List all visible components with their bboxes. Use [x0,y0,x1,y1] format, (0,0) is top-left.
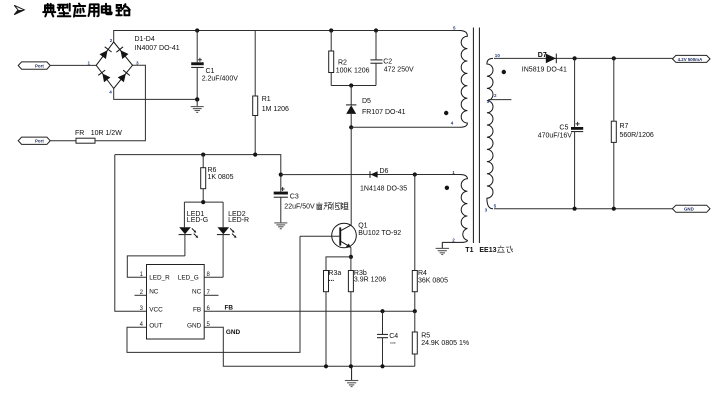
ground G1 [191,99,204,112]
svg-text:472 250V: 472 250V [384,67,414,74]
U1 pin 3 VCC [140,306,163,314]
T1 primary polarity dot [444,111,448,115]
svg-text:3.9R 1206: 3.9R 1206 [354,277,386,284]
svg-text:IN4007 DO-41: IN4007 DO-41 [135,45,180,52]
ground G2 [274,223,287,229]
svg-text:10: 10 [495,53,501,58]
junction R4 top [413,172,417,176]
wire VCC left leg to pin 3 [115,155,147,312]
svg-text:FR: FR [75,130,84,137]
svg-text:36K 0805: 36K 0805 [418,278,448,285]
resistor R3a [324,270,342,366]
svg-text:BU102 TO-92: BU102 TO-92 [358,230,401,237]
U1 pin 2 NC stub [135,289,159,296]
svg-text:1N4148 DO-35: 1N4148 DO-35 [360,185,407,192]
value label 高频低阻 for C3 [316,202,348,209]
T1 aux polarity dot [445,186,449,190]
wire bridge node4 to C1 ground node [114,89,198,100]
wire GND line pin5 [204,327,415,366]
junction C3 top [279,173,283,177]
svg-text:C3: C3 [290,194,299,201]
junction C1 top [195,28,199,32]
T1 secondary winding pins 10-2/3-5 [485,53,501,213]
resistor R6 [201,155,234,203]
port output 4.2V 500mA [672,55,710,62]
T1 secondary polarity dot [502,70,506,74]
capacitor C1 electrolytic [191,31,238,100]
junction R7 top [612,56,616,60]
svg-text:100K 1206: 100K 1206 [336,67,370,74]
svg-text:T1: T1 [465,247,473,254]
svg-text:...: ... [328,276,334,283]
capacitor C3 electrolytic [274,175,315,223]
port P1 AC input [18,62,50,69]
junction R6 bottom [201,200,205,204]
capacitor C4 [377,311,398,366]
LED LED1 green [179,202,209,256]
resistor R5 [412,311,469,366]
wire secondary pin10 to output [494,57,672,59]
wire bridge node2 riser to top rail [114,31,460,43]
svg-text:C5: C5 [559,125,568,132]
T1 secondary tap stub wire [488,99,511,101]
wire D6 aux line [281,174,460,176]
U1 pin 7 NC stub [192,289,219,296]
resistor FR fuse resistor [75,130,122,143]
svg-text:VCC: VCC [149,307,163,314]
resistor R2 [329,31,370,86]
wire LED1 cathode to pin 1 [127,256,185,277]
svg-text:1: 1 [88,60,91,65]
diode D2 (arm 3-2) [116,47,128,59]
diode D3 (arm 4-1) [98,70,110,82]
wire secondary pin5 to GND port [494,208,672,210]
svg-text:2.2uF/400V: 2.2uF/400V [202,76,239,83]
transformer T1 core [465,28,496,255]
U1 pin 1 LED_R [140,272,171,282]
svg-text:2: 2 [494,93,497,98]
bridge rectifier D1-D4 diamond [88,36,180,94]
wire VCC node line [115,155,281,175]
wire P2 to FR [50,140,76,142]
svg-text:LED_R: LED_R [149,275,170,282]
wire LED rail [184,201,223,203]
svg-text:470uF/16V: 470uF/16V [538,133,573,140]
resistor R7 [611,58,654,208]
wire to transformer pin 4 [351,126,459,128]
T1 label 立式 [497,246,513,253]
svg-text:22uF/50V: 22uF/50V [284,204,315,211]
wire collector riser [350,127,352,224]
svg-text:GND: GND [187,323,202,330]
junction R2 top [329,28,333,32]
wire LED2 cathode to pin 8 [204,276,223,278]
T1 aux winding pins 1-2 [442,170,467,243]
svg-text:D7: D7 [538,52,547,59]
svg-text:Port: Port [35,63,44,68]
svg-text:1: 1 [452,170,455,175]
junction R3b bottom / ground [349,364,353,368]
svg-text:R5: R5 [421,333,430,340]
svg-text:NC: NC [149,289,159,296]
svg-text:NC: NC [192,289,202,296]
svg-text:2: 2 [452,238,455,243]
resistor R3b [348,257,386,366]
svg-text:LED-R: LED-R [228,217,249,224]
svg-text:OUT: OUT [149,323,163,330]
wire emitter down [350,247,352,257]
T1 primary winding pins 5-4 [451,26,468,128]
junction R6 top [201,153,205,157]
U1 pin 8 LED_G [178,272,211,282]
svg-text:4.2V 500mA: 4.2V 500mA [678,57,703,62]
svg-text:Q1: Q1 [358,223,367,230]
junction D5 anode / pin4 / collector [349,125,353,129]
svg-text:5: 5 [453,26,456,31]
junction R1 bottom [253,153,257,157]
svg-text:D6: D6 [380,168,389,175]
svg-text:R4: R4 [418,270,427,277]
svg-text:FB: FB [225,305,234,312]
svg-text:GND: GND [684,207,694,212]
svg-text:LED-G: LED-G [187,217,208,224]
svg-text:LED_G: LED_G [178,275,199,282]
junction C5 bottom [573,207,577,211]
op-amp U1 controller IC body [147,265,205,340]
svg-text:EE13: EE13 [479,247,496,254]
svg-text:FR107 DO-41: FR107 DO-41 [362,109,406,116]
svg-text:GND: GND [226,329,241,336]
svg-text:...: ... [390,339,396,346]
wire base from OUT riser [300,235,339,237]
transistor Q1 NPN [332,223,402,248]
diode D6 [360,168,407,192]
junction emitter node [349,255,353,259]
svg-text:R1: R1 [262,96,271,103]
title 典型应用电路 [43,4,130,17]
capacitor C5 electrolytic [538,58,584,208]
diode D4 (arm 4-3) [118,70,130,82]
wire OUT line pin4 [127,236,300,352]
svg-text:2: 2 [110,38,113,43]
junction R7 bottom [612,207,616,211]
junction C1 bottom / ground [195,97,199,101]
junction C2 top [374,28,378,32]
ground G4 aux [436,242,449,254]
svg-text:1K 0805: 1K 0805 [208,174,234,181]
title bullet arrow [14,5,24,14]
wire emitter to R3a [326,257,351,271]
svg-text:C1: C1 [206,68,215,75]
port P2 AC input [18,137,50,144]
svg-text:1M 1206: 1M 1206 [262,106,289,113]
svg-text:5: 5 [494,204,497,209]
svg-text:24.9K 0805 1%: 24.9K 0805 1% [421,340,469,347]
ground G3 [345,366,358,386]
U1 pin 6 FB [193,306,210,314]
junction D5 top [349,83,353,87]
junction R3a bottom [324,364,328,368]
svg-text:3: 3 [485,208,488,213]
svg-text:4: 4 [109,89,112,94]
junction C5 top [573,56,577,60]
svg-text:R7: R7 [620,123,629,130]
svg-text:4: 4 [451,120,454,125]
U1 pin 4 OUT [140,322,163,330]
svg-text:R2: R2 [338,60,347,67]
svg-text:D5: D5 [362,98,371,105]
svg-text:IN5819 DO-41: IN5819 DO-41 [522,66,567,73]
diode D7 [522,52,567,74]
svg-text:3: 3 [136,60,139,65]
resistor R1 [253,31,289,155]
wire P1 to bridge node 1 [50,64,96,66]
svg-text:10R 1/2W: 10R 1/2W [91,130,123,137]
junction R4/R5 FB [413,309,417,313]
svg-text:FB: FB [193,307,201,314]
svg-text:C2: C2 [383,59,392,66]
svg-text:560R/1206: 560R/1206 [620,132,654,139]
junction C4 top [380,309,384,313]
wire FB line [204,310,415,312]
junction C4 bottom [380,364,384,368]
U1 pin 5 GND [187,322,211,330]
svg-text:D1-D4: D1-D4 [135,36,155,43]
capacitor C2 [370,31,414,86]
svg-text:R6: R6 [208,167,217,174]
diode D1 (arm 1-2) [100,47,112,59]
wire FR to bridge node 3 riser [95,65,145,140]
resistor R4 [412,175,448,312]
svg-text:Port: Port [35,139,44,144]
wire R2/C2 bottoms join [331,85,376,87]
LED LED2 red [217,202,249,277]
port GND output [672,205,710,212]
diode D5 [346,86,406,128]
